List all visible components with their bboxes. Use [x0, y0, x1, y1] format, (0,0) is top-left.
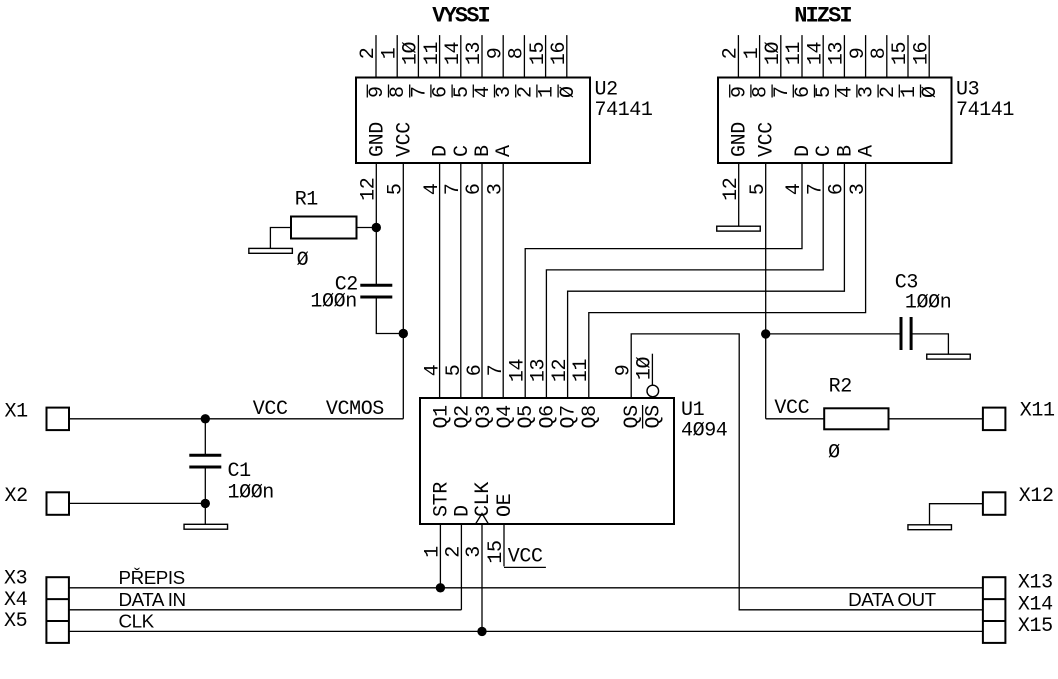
svg-text:11: 11: [570, 359, 593, 383]
svg-text:A: A: [493, 145, 516, 157]
svg-text:STR: STR: [430, 482, 453, 517]
svg-text:4: 4: [834, 86, 857, 98]
svg-text:VCC: VCC: [756, 122, 779, 157]
svg-text:14: 14: [442, 42, 465, 65]
svg-text:5: 5: [747, 183, 770, 195]
svg-text:6: 6: [463, 183, 486, 195]
svg-text:7: 7: [442, 183, 465, 195]
svg-text:2: 2: [443, 546, 466, 558]
svg-text:13: 13: [826, 42, 849, 65]
svg-text:PŘEPIS: PŘEPIS: [119, 567, 185, 588]
svg-text:X3: X3: [4, 568, 27, 591]
svg-text:D: D: [451, 505, 474, 517]
svg-text:Q3: Q3: [473, 405, 496, 428]
svg-text:4: 4: [421, 183, 444, 195]
svg-text:Ø: Ø: [828, 442, 840, 465]
svg-text:11: 11: [421, 42, 444, 66]
svg-text:5: 5: [385, 183, 408, 195]
svg-text:2: 2: [877, 86, 900, 98]
svg-text:9: 9: [484, 48, 507, 60]
svg-text:X12: X12: [1019, 485, 1054, 508]
svg-text:15: 15: [527, 42, 550, 65]
svg-text:CLK: CLK: [119, 611, 155, 632]
svg-text:C1: C1: [228, 460, 252, 483]
svg-text:3: 3: [493, 86, 516, 98]
svg-text:X4: X4: [4, 589, 27, 612]
svg-text:Q2: Q2: [452, 405, 475, 428]
svg-text:15: 15: [485, 540, 508, 563]
svg-text:QS: QS: [642, 405, 665, 429]
svg-text:7: 7: [804, 183, 827, 195]
svg-text:1: 1: [422, 546, 445, 558]
svg-text:DATA IN: DATA IN: [119, 589, 186, 610]
svg-text:X1: X1: [5, 401, 29, 424]
svg-text:8: 8: [387, 86, 410, 98]
svg-text:C: C: [451, 145, 474, 157]
svg-text:Q7: Q7: [558, 405, 581, 428]
svg-text:Q5: Q5: [515, 405, 538, 428]
svg-text:X2: X2: [5, 485, 28, 508]
svg-text:74141: 74141: [956, 99, 1014, 122]
svg-text:VCC: VCC: [253, 398, 288, 421]
svg-text:1ØØn: 1ØØn: [905, 292, 951, 315]
svg-text:4: 4: [422, 365, 445, 377]
svg-text:8: 8: [506, 48, 529, 60]
svg-text:D: D: [430, 145, 453, 157]
svg-text:9: 9: [728, 86, 751, 98]
svg-text:7: 7: [485, 365, 508, 377]
svg-text:Q8: Q8: [579, 405, 602, 428]
svg-text:9: 9: [612, 365, 635, 377]
svg-text:3: 3: [847, 183, 870, 195]
svg-text:16: 16: [548, 42, 571, 65]
svg-text:11: 11: [783, 42, 806, 66]
svg-text:C: C: [813, 145, 836, 157]
svg-text:5: 5: [451, 86, 474, 98]
svg-text:1: 1: [741, 47, 764, 59]
svg-text:14: 14: [804, 42, 827, 65]
svg-text:B: B: [834, 145, 857, 157]
svg-text:Ø: Ø: [297, 249, 309, 272]
svg-text:Ø: Ø: [919, 86, 942, 98]
svg-text:14: 14: [506, 359, 529, 382]
svg-text:7: 7: [771, 86, 794, 98]
svg-text:12: 12: [549, 359, 572, 382]
svg-text:VCC: VCC: [393, 122, 416, 157]
svg-text:1ØØn: 1ØØn: [310, 290, 356, 313]
svg-text:8: 8: [868, 48, 891, 60]
svg-text:1: 1: [898, 86, 921, 98]
svg-text:NIZSI: NIZSI: [794, 4, 851, 29]
svg-text:9: 9: [366, 86, 389, 98]
svg-text:7: 7: [408, 86, 431, 98]
svg-text:6: 6: [826, 183, 849, 195]
svg-text:X11: X11: [1020, 400, 1055, 423]
svg-text:1: 1: [536, 86, 559, 98]
svg-text:4Ø94: 4Ø94: [681, 420, 727, 443]
svg-text:Ø: Ø: [557, 86, 580, 98]
svg-text:3: 3: [484, 183, 507, 195]
svg-text:6: 6: [464, 365, 487, 377]
svg-text:OE: OE: [494, 494, 517, 517]
svg-text:VCC: VCC: [508, 546, 543, 569]
svg-text:5: 5: [443, 365, 466, 377]
svg-text:GND: GND: [366, 122, 389, 157]
svg-text:2: 2: [720, 48, 743, 60]
svg-text:X15: X15: [1018, 615, 1053, 638]
svg-text:A: A: [856, 145, 879, 157]
svg-text:Q4: Q4: [494, 405, 517, 428]
svg-text:5: 5: [813, 86, 836, 98]
svg-text:6: 6: [430, 86, 453, 98]
svg-text:1Ø: 1Ø: [762, 42, 785, 66]
svg-text:15: 15: [889, 42, 912, 65]
svg-text:QS: QS: [621, 405, 644, 429]
svg-text:X5: X5: [4, 610, 27, 633]
svg-text:VCC: VCC: [774, 397, 809, 420]
svg-text:1Ø: 1Ø: [634, 357, 657, 381]
svg-text:2: 2: [357, 48, 380, 60]
svg-text:13: 13: [463, 42, 486, 65]
svg-text:1ØØn: 1ØØn: [228, 482, 274, 505]
svg-text:CLK: CLK: [472, 482, 495, 517]
svg-text:3: 3: [463, 546, 486, 558]
svg-text:R2: R2: [829, 376, 852, 399]
svg-text:DATA OUT: DATA OUT: [848, 589, 937, 610]
svg-text:1Ø: 1Ø: [400, 42, 423, 66]
svg-text:13: 13: [528, 359, 551, 382]
svg-text:12: 12: [358, 178, 381, 201]
svg-text:3: 3: [856, 86, 879, 98]
svg-text:Q1: Q1: [430, 405, 453, 429]
svg-text:4: 4: [783, 183, 806, 195]
svg-text:74141: 74141: [595, 99, 653, 122]
svg-text:R1: R1: [295, 188, 319, 211]
svg-text:GND: GND: [729, 122, 752, 157]
svg-text:8: 8: [750, 86, 773, 98]
svg-text:6: 6: [792, 86, 815, 98]
svg-text:1: 1: [378, 47, 401, 59]
svg-text:X13: X13: [1018, 572, 1053, 595]
svg-text:B: B: [472, 145, 495, 157]
svg-text:Q6: Q6: [536, 405, 559, 428]
svg-text:2: 2: [514, 86, 537, 98]
svg-text:16: 16: [910, 42, 933, 65]
svg-text:9: 9: [847, 48, 870, 60]
svg-text:12: 12: [720, 178, 743, 201]
svg-text:4: 4: [472, 86, 495, 98]
svg-text:D: D: [792, 145, 815, 157]
svg-text:VCMOS: VCMOS: [326, 398, 384, 421]
svg-text:X14: X14: [1018, 594, 1053, 617]
svg-text:VYSSI: VYSSI: [432, 4, 489, 29]
